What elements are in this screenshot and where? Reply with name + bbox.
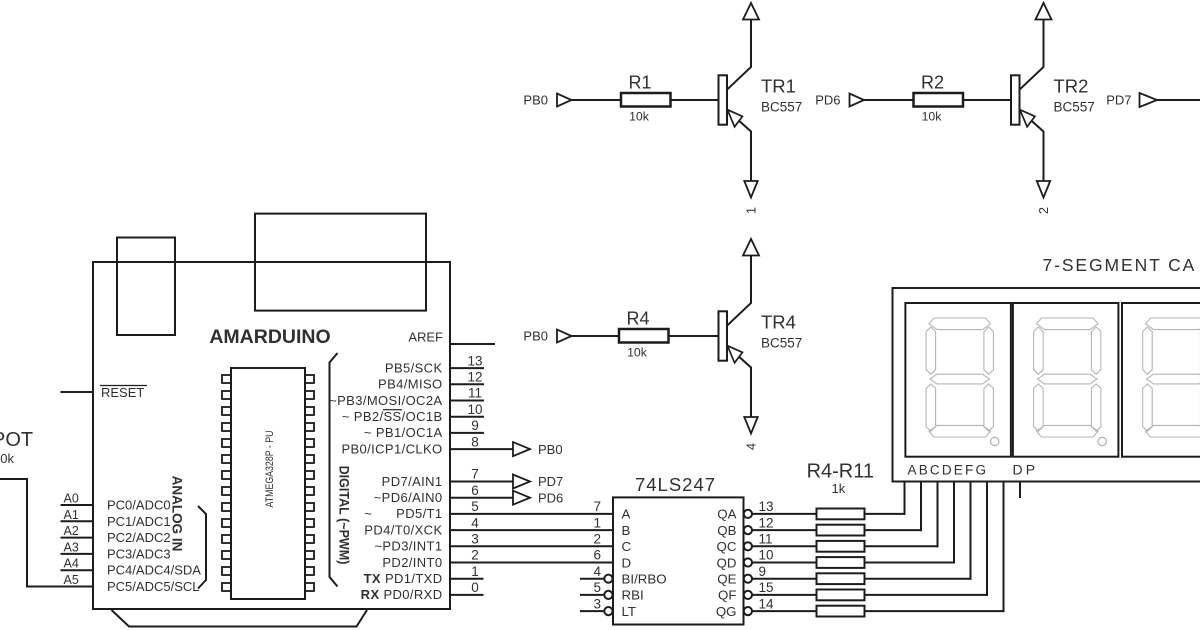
- resistor 1k for segment: [817, 541, 865, 552]
- svg-text:QD: QD: [717, 555, 737, 570]
- wire to resistor: [752, 545, 817, 547]
- resistor 1k for segment: [817, 606, 865, 617]
- svg-text:PC0/ADC0: PC0/ADC0: [107, 498, 171, 513]
- wire digital pin stub: [450, 367, 484, 369]
- svg-text:A0: A0: [64, 492, 79, 506]
- svg-text:D: D: [622, 555, 632, 570]
- svg-text:PB0/ICP1/CLKO: PB0/ICP1/CLKO: [341, 441, 442, 456]
- svg-text:PD6: PD6: [815, 93, 840, 108]
- transistor TR2 emitter with arrow: [1020, 110, 1044, 181]
- svg-text:QE: QE: [717, 572, 736, 587]
- wire resistor to display: [865, 610, 1005, 612]
- svg-text:5: 5: [471, 499, 479, 514]
- wire: [864, 99, 914, 101]
- arrow down open: [744, 417, 757, 434]
- svg-text:PB0: PB0: [523, 329, 548, 344]
- svg-text:0: 0: [471, 580, 479, 595]
- transistor TR4 collector to supply: [727, 239, 751, 326]
- svg-text:DIGITAL (~PWM): DIGITAL (~PWM): [336, 466, 352, 565]
- svg-text:PD7: PD7: [538, 474, 563, 489]
- svg-text:4: 4: [593, 564, 601, 579]
- svg-text:AREF: AREF: [408, 330, 443, 345]
- svg-text:BC557: BC557: [761, 100, 802, 115]
- display DS1 outer body: [893, 288, 1200, 482]
- arduino power jack: [255, 214, 426, 311]
- svg-text:10k: 10k: [627, 346, 648, 360]
- wire digital pin stub: [450, 400, 484, 402]
- svg-text:QG: QG: [716, 604, 737, 619]
- wire: [1157, 99, 1200, 101]
- svg-text:BI/RBO: BI/RBO: [622, 572, 667, 587]
- svg-text:9: 9: [471, 418, 479, 433]
- svg-text:4: 4: [745, 443, 759, 450]
- svg-text:PB0: PB0: [523, 93, 548, 108]
- resistor 1k for segment: [817, 573, 865, 584]
- ic ATMEGA328P pins: [222, 375, 231, 383]
- arrow down open: [1037, 181, 1050, 198]
- wire to net flag: [450, 448, 513, 450]
- svg-text:PD7: PD7: [1106, 93, 1131, 108]
- svg-text:~PD3/INT1: ~PD3/INT1: [374, 539, 442, 554]
- svg-text:5: 5: [593, 580, 601, 595]
- display digit cell 3: [1122, 303, 1200, 457]
- svg-text:A3: A3: [64, 540, 79, 554]
- wire to resistor: [752, 513, 817, 515]
- svg-text:B: B: [622, 523, 631, 538]
- resistor 1k for segment: [817, 590, 865, 601]
- wire to net flag: [450, 497, 513, 499]
- svg-text:PB4/MISO: PB4/MISO: [378, 377, 442, 392]
- wire analog pin A2: [61, 537, 94, 539]
- wire to net flag: [450, 481, 513, 483]
- transistor TR1 collector to supply: [727, 3, 751, 90]
- svg-text:QA: QA: [717, 507, 736, 522]
- svg-text:~ PD5/T1: ~ PD5/T1: [364, 506, 442, 521]
- wire resistor to display: [865, 545, 939, 547]
- arduino usb connector: [117, 238, 175, 336]
- svg-text:7: 7: [593, 499, 601, 514]
- wire AREF: [450, 343, 495, 345]
- 7-segment figure 2: [1037, 318, 1099, 330]
- wire to resistor: [752, 529, 817, 531]
- svg-text:12: 12: [467, 370, 482, 385]
- svg-text:TR1: TR1: [761, 76, 796, 97]
- wire resistor to display: [865, 562, 956, 564]
- wire digital pin stub: [450, 432, 484, 434]
- svg-text:PD7/AIN1: PD7/AIN1: [382, 474, 443, 489]
- svg-text:PC1/ADC1: PC1/ADC1: [107, 514, 171, 529]
- svg-text:ANALOG IN: ANALOG IN: [170, 476, 185, 552]
- svg-text:~ PB2/SS/OC1B: ~ PB2/SS/OC1B: [342, 409, 443, 424]
- svg-text:A4: A4: [64, 557, 79, 571]
- svg-text:A5: A5: [64, 573, 79, 587]
- svg-text:ABCDEFG: ABCDEFG: [908, 462, 989, 477]
- transistor TR1 emitter with arrow: [727, 110, 751, 181]
- svg-text:PD2/INT0: PD2/INT0: [382, 555, 442, 570]
- svg-text:74LS247: 74LS247: [635, 474, 716, 495]
- svg-text:1k: 1k: [832, 481, 846, 496]
- wire analog pin A5: [61, 586, 94, 588]
- svg-text:9: 9: [759, 564, 767, 579]
- svg-text:PD6: PD6: [538, 490, 563, 505]
- svg-text:13: 13: [759, 499, 774, 514]
- wire analog pin A4: [61, 569, 94, 571]
- svg-text:BC557: BC557: [1054, 100, 1095, 115]
- resistor R4: [619, 329, 669, 343]
- resistor R2: [914, 93, 964, 107]
- svg-text:TR2: TR2: [1054, 76, 1089, 97]
- resistor 1k for segment: [817, 525, 865, 536]
- svg-text:RESET: RESET: [101, 385, 144, 400]
- wire to resistor: [752, 578, 817, 580]
- svg-text:3: 3: [593, 596, 601, 611]
- wire: [572, 335, 620, 337]
- wire analog pin A1: [61, 520, 94, 522]
- svg-text:14: 14: [759, 596, 775, 611]
- transistor TR1 BC557 base bar: [719, 75, 728, 124]
- svg-text:A2: A2: [64, 524, 79, 538]
- svg-text:10: 10: [467, 402, 482, 417]
- svg-text:R1: R1: [628, 73, 651, 93]
- wire digital pin stub: [450, 383, 484, 385]
- svg-text:2: 2: [1037, 207, 1051, 214]
- SS overline on pin 10: [383, 409, 402, 411]
- wire analog pin A3: [61, 553, 94, 555]
- svg-text:1: 1: [471, 564, 479, 579]
- wire: [963, 99, 1011, 101]
- wire: [670, 99, 718, 101]
- analog in bracket: [198, 506, 206, 589]
- decimal point 1: [991, 437, 999, 445]
- svg-text:POT: POT: [0, 429, 33, 451]
- display digit cell 1: [905, 303, 1011, 457]
- net flag PB0: [513, 442, 530, 456]
- svg-text:1: 1: [593, 515, 601, 530]
- svg-text:R4-R11: R4-R11: [807, 461, 874, 483]
- svg-text:C: C: [622, 539, 632, 554]
- transistor TR2 collector to supply: [1020, 3, 1044, 90]
- wire to resistor: [752, 594, 817, 596]
- supply arrow up: [743, 239, 759, 256]
- wire to 74LS247: [450, 545, 613, 547]
- 7-segment figure 1: [929, 318, 991, 330]
- supply arrow up: [743, 3, 759, 20]
- transistor TR2 BC557 base bar: [1011, 75, 1020, 124]
- svg-text:11: 11: [759, 532, 773, 547]
- svg-text:PD4/T0/XCK: PD4/T0/XCK: [364, 522, 442, 537]
- svg-text:A: A: [622, 507, 631, 522]
- 7-segment figure 3: [1146, 318, 1200, 330]
- svg-text:RX PD0/RXD: RX PD0/RXD: [361, 587, 443, 602]
- svg-text:10k: 10k: [629, 110, 650, 124]
- svg-text:R4: R4: [626, 309, 649, 329]
- net flag PD6: [513, 491, 530, 505]
- svg-text:A1: A1: [64, 508, 79, 522]
- svg-text:PB0: PB0: [538, 442, 563, 457]
- svg-text:15: 15: [759, 580, 774, 595]
- svg-text:~ PB1/OC1A: ~ PB1/OC1A: [364, 425, 443, 440]
- svg-text:~PD6/AIN0: ~PD6/AIN0: [374, 490, 443, 505]
- svg-text:6: 6: [593, 548, 601, 563]
- svg-text:10k: 10k: [0, 451, 14, 466]
- wire digital pin stub: [450, 594, 484, 596]
- svg-text:12: 12: [759, 515, 774, 530]
- svg-text:PC4/ADC4/SDA: PC4/ADC4/SDA: [107, 563, 201, 578]
- svg-text:BC557: BC557: [761, 336, 802, 351]
- svg-text:ATMEGA328P - PU: ATMEGA328P - PU: [264, 431, 276, 508]
- svg-text:QF: QF: [718, 588, 736, 603]
- wire resistor to display: [865, 529, 923, 531]
- arduino board bottom edge: [112, 610, 368, 627]
- wire resistor to display: [865, 594, 989, 596]
- svg-text:10: 10: [759, 548, 774, 563]
- svg-text:2: 2: [471, 548, 479, 563]
- digital bracket: [330, 353, 338, 587]
- wire resistor to display: [865, 513, 906, 515]
- svg-text:QC: QC: [717, 539, 737, 554]
- svg-text:7-SEGMENT CA: 7-SEGMENT CA: [1043, 255, 1197, 275]
- svg-text:TX PD1/TXD: TX PD1/TXD: [364, 571, 443, 586]
- svg-text:QB: QB: [717, 523, 736, 538]
- supply arrow up: [1036, 3, 1052, 20]
- svg-text:11: 11: [468, 386, 482, 401]
- svg-text:LT: LT: [622, 604, 637, 619]
- wire: [668, 335, 718, 337]
- svg-text:8: 8: [471, 434, 479, 449]
- wire DP stub: [1019, 482, 1021, 499]
- svg-text:3: 3: [471, 532, 479, 547]
- svg-text:13: 13: [467, 353, 482, 368]
- svg-text:PC3/ADC3: PC3/ADC3: [107, 546, 171, 561]
- wire POT to A5: [0, 478, 28, 480]
- svg-text:DP: DP: [1013, 462, 1039, 478]
- ic ATMEGA328P body: [231, 368, 305, 599]
- resistor 1k for segment: [817, 509, 865, 520]
- wire resistor to display: [865, 578, 972, 580]
- wire to resistor: [752, 562, 817, 564]
- transistor TR4 emitter with arrow: [727, 346, 751, 417]
- resistor R1: [621, 93, 671, 107]
- svg-text:TR4: TR4: [761, 312, 796, 333]
- svg-text:10k: 10k: [922, 110, 943, 124]
- svg-text:PB5/SCK: PB5/SCK: [385, 360, 443, 375]
- arduino board U1 outline: [93, 262, 450, 609]
- svg-text:7: 7: [471, 467, 479, 482]
- svg-text:PC2/ADC2: PC2/ADC2: [107, 530, 171, 545]
- arrow down open: [744, 181, 757, 198]
- svg-text:PC5/ADC5/SCL: PC5/ADC5/SCL: [107, 579, 199, 594]
- svg-text:1: 1: [745, 207, 759, 214]
- wire: [572, 99, 622, 101]
- wire RESET stub: [61, 391, 94, 393]
- svg-text:AMARDUINO: AMARDUINO: [209, 326, 330, 348]
- transistor TR4 BC557 base bar: [719, 311, 728, 360]
- decimal point 2: [1098, 437, 1106, 445]
- decoder 74LS247 body: [613, 497, 744, 624]
- svg-text:RBI: RBI: [622, 588, 644, 603]
- svg-text:2: 2: [593, 532, 601, 547]
- svg-text:R2: R2: [921, 73, 944, 93]
- wire to 74LS247: [450, 513, 613, 515]
- svg-text:4: 4: [471, 515, 479, 530]
- wire to resistor: [752, 610, 817, 612]
- svg-text:~PB3/MOSI/OC2A: ~PB3/MOSI/OC2A: [329, 393, 442, 408]
- wire digital pin stub: [450, 578, 484, 580]
- display digit cell 2: [1013, 303, 1119, 457]
- net flag PD7: [513, 475, 530, 489]
- wire to 74LS247: [450, 562, 613, 564]
- wire to 74LS247: [450, 529, 613, 531]
- svg-text:6: 6: [471, 483, 479, 498]
- wire analog pin A0: [61, 504, 94, 506]
- resistor 1k for segment: [817, 557, 865, 568]
- wire digital pin stub: [450, 416, 484, 418]
